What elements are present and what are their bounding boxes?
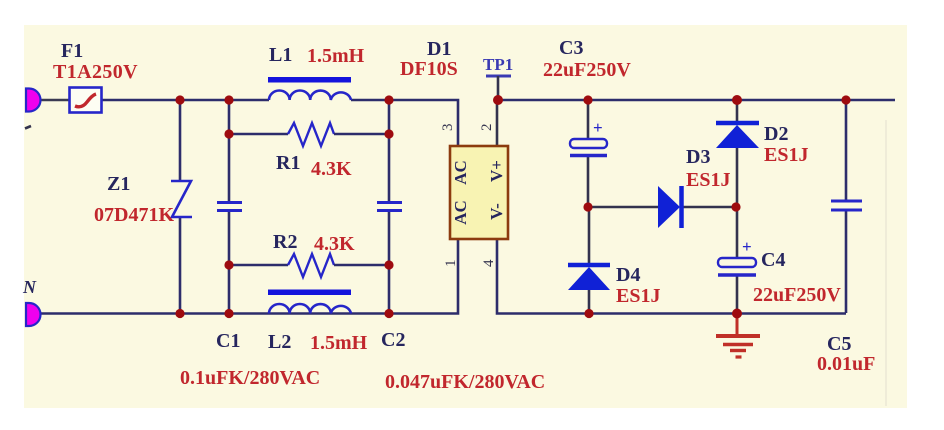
test point TP1 [486,75,511,78]
svg-text:R2: R2 [273,231,297,253]
C1 branch wires [228,100,231,202]
svg-text:4: 4 [481,259,497,267]
svg-text:4.3K: 4.3K [314,233,355,255]
junction R1 right [384,129,393,138]
inductor L2 coil [269,304,351,314]
junction Z1 top rail [175,95,184,104]
svg-text:4.3K: 4.3K [311,158,352,180]
svg-text:D2: D2 [764,123,788,145]
svg-text:N: N [22,277,37,297]
svg-text:1.5mH: 1.5mH [310,332,368,354]
connector N [26,303,41,326]
svg-text:0.047uFK/280VAC: 0.047uFK/280VAC [385,371,545,393]
junction TP1 node [493,95,503,105]
svg-text:+: + [593,118,603,137]
diode D3 [658,186,680,228]
svg-text:TP1: TP1 [483,55,513,74]
bridge rectifier D1 [450,146,508,239]
svg-text:D3: D3 [686,146,710,168]
capacitor C3 branch wires [587,100,590,139]
wire L1 to bridge corner [351,100,458,146]
svg-text:2: 2 [479,124,495,132]
wire mid rail C3 to D3 [588,206,658,209]
svg-text:C4: C4 [761,249,785,271]
svg-text:Z1: Z1 [107,173,130,195]
inductor L1 core bar [268,77,351,83]
ground [736,315,739,334]
svg-text:C2: C2 [381,329,405,351]
svg-text:0.01uF: 0.01uF [817,353,875,375]
capacitor C5 branch wires [845,100,848,201]
wire bridge pin1 to bottom rail [39,239,458,314]
svg-text:+: + [742,237,752,256]
varistor Z1 branch wire [179,100,182,181]
L label mark [25,126,31,129]
svg-text:C3: C3 [559,37,583,59]
wire bridge pin2 [496,100,499,146]
svg-text:07D471K: 07D471K [94,204,174,226]
inductor L1 coil [269,91,351,101]
diode D2 [716,121,759,126]
svg-text:L1: L1 [269,44,292,66]
junction R2 right [384,260,393,269]
svg-text:DF10S: DF10S [400,58,458,80]
junction C5 top [841,95,850,104]
wire top right rail [498,99,895,102]
resistor R2 [231,264,288,266]
svg-text:ES1J: ES1J [686,169,730,191]
fuse F1 [70,88,102,113]
inductor L2 core bar [268,290,351,296]
junction C4-ground [732,309,742,319]
junction C2 top rail [384,95,393,104]
svg-text:3: 3 [440,124,456,132]
svg-text:C5: C5 [827,333,851,355]
svg-text:AC: AC [451,160,470,185]
wire D3 to junction [683,206,737,209]
svg-text:T1A250V: T1A250V [53,61,138,83]
resistor R1 [231,133,288,135]
capacitor C1 [217,201,242,204]
diode D4 branch wire [588,207,591,263]
svg-text:1: 1 [443,260,459,268]
capacitor C4 branch wires [736,207,739,258]
junction C1 bottom rail [224,309,233,318]
junction C2 bottom rail [384,309,393,318]
junction Z1 bottom rail [175,309,184,318]
sheet border line [885,120,887,406]
svg-text:F1: F1 [61,40,83,62]
junction R1 left [224,129,233,138]
wire L top rail [38,99,69,102]
junction C3-D3 mid node [583,202,592,211]
diode D2 branch wire [736,100,739,121]
svg-text:ES1J: ES1J [616,285,660,307]
capacitor C2 [377,201,402,204]
svg-text:22uF250V: 22uF250V [543,59,631,81]
wire bridge pin4 to right bottom rail [497,239,846,314]
svg-text:22uF250V: 22uF250V [753,284,841,306]
svg-text:D1: D1 [427,38,451,60]
svg-text:1.5mH: 1.5mH [307,45,365,67]
svg-text:ES1J: ES1J [764,144,808,166]
svg-text:AC: AC [451,200,470,225]
junction D2 top [732,95,742,105]
svg-text:0.1uFK/280VAC: 0.1uFK/280VAC [180,367,320,389]
connector L [26,89,40,112]
junction D4 bottom [584,309,593,318]
junction C1 top rail [224,95,233,104]
wire fuse to L1 [102,99,269,102]
varistor Z1 symbol [171,181,192,217]
svg-text:V+: V+ [487,160,506,182]
capacitor C5 [831,200,862,203]
svg-text:L2: L2 [268,331,291,353]
C2 branch wires [388,100,391,202]
junction C3 top [583,95,592,104]
svg-text:R1: R1 [276,152,300,174]
svg-text:D4: D4 [616,264,640,286]
svg-text:C1: C1 [216,330,240,352]
junction D3-C4 mid node [731,202,740,211]
junction R2 left [224,260,233,269]
svg-text:V-: V- [487,203,506,220]
diode D4 [568,263,610,268]
